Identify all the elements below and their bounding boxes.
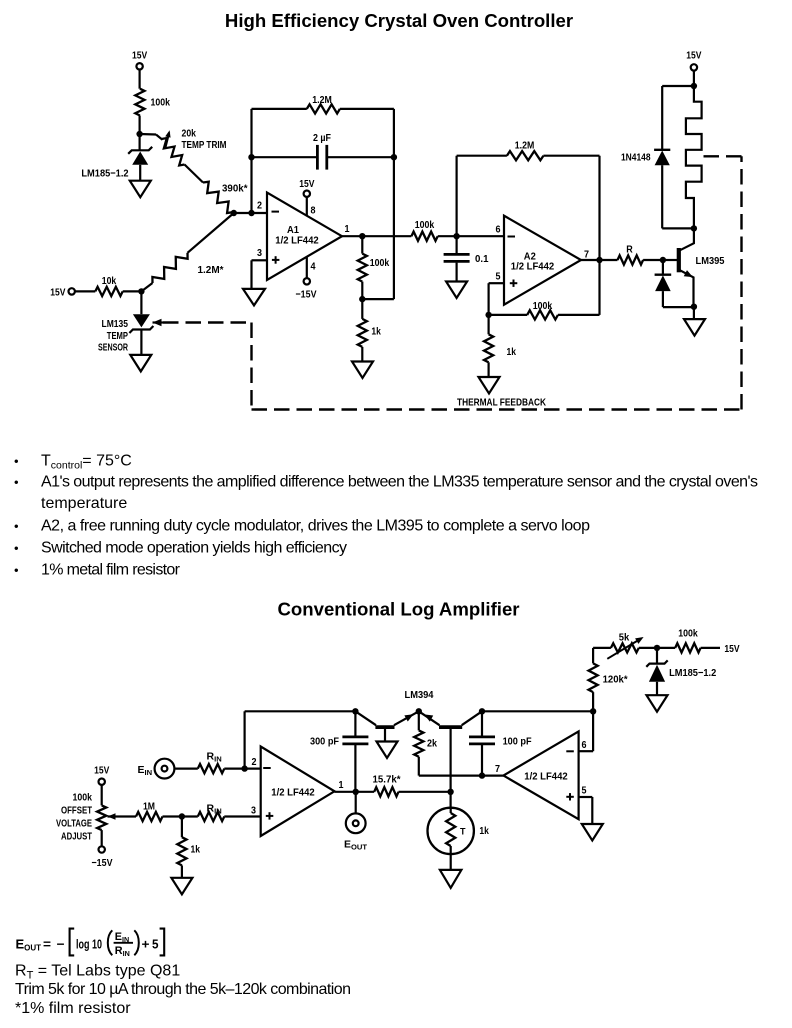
wire <box>234 212 267 214</box>
svg-text:TEMP: TEMP <box>107 330 128 342</box>
transistor LM395 <box>677 248 681 272</box>
svg-text:−15V: −15V <box>296 288 317 300</box>
svg-text:1/2 LF442: 1/2 LF442 <box>275 234 319 246</box>
resistor 15.7k* <box>374 787 398 796</box>
resistor 1M <box>136 812 163 821</box>
diode 1N4148 <box>654 149 670 151</box>
potentiometer 5k <box>593 647 611 649</box>
svg-text:1.2M: 1.2M <box>515 139 535 151</box>
ground <box>352 362 373 379</box>
resistor 390k* <box>203 182 233 213</box>
svg-text:•: • <box>14 563 19 578</box>
resistor 100k (A2 feedback bottom) <box>489 314 528 316</box>
node junction <box>179 813 185 819</box>
svg-text:15.7k*: 15.7k* <box>373 773 402 785</box>
rail to 120k node <box>482 710 593 712</box>
ground <box>171 878 192 895</box>
wire pin 6 <box>579 750 594 752</box>
op-amp A1 <box>267 193 342 281</box>
node junction <box>596 257 602 263</box>
node junction <box>138 288 144 294</box>
svg-text:10k: 10k <box>102 275 117 287</box>
resistor 1k <box>361 299 363 319</box>
pin 4 stub with -15V <box>306 257 308 279</box>
svg-text:1/2 LF442: 1/2 LF442 <box>511 261 555 273</box>
diode (base-emitter protect) <box>662 260 664 275</box>
op-amp O2 1/2 LF442 (mirrored) <box>503 731 578 819</box>
node junction <box>248 154 254 160</box>
wire <box>175 767 198 769</box>
thermistor RT 1k <box>450 792 452 808</box>
svg-text:log 10: log 10 <box>76 938 102 952</box>
svg-text:3: 3 <box>251 805 256 817</box>
heater element (crystal oven) <box>686 86 702 228</box>
svg-text:=: = <box>43 937 51 952</box>
svg-text:15V: 15V <box>686 49 701 61</box>
svg-text:1: 1 <box>345 223 350 235</box>
wire <box>139 116 141 135</box>
ground <box>647 695 668 712</box>
resistor RIN (lower) <box>198 812 225 821</box>
terminal 15V (left) <box>69 288 75 294</box>
svg-text:OFFSET: OFFSET <box>61 804 92 816</box>
svg-text:7: 7 <box>584 249 589 261</box>
feedback riser <box>244 711 246 768</box>
node junction <box>231 210 237 216</box>
capacitor 2uF <box>252 156 317 158</box>
resistor 120k* <box>592 692 594 711</box>
svg-text:1: 1 <box>339 779 344 791</box>
node junction <box>691 225 697 231</box>
node junction <box>359 233 365 239</box>
svg-text:2: 2 <box>252 756 257 768</box>
pin 8 stub with 15V <box>304 191 310 197</box>
feedback riser left <box>250 109 252 213</box>
node junction <box>241 765 247 771</box>
terminal EOUT <box>355 792 357 814</box>
svg-text:−15V: −15V <box>92 857 113 869</box>
svg-text:3: 3 <box>257 247 262 259</box>
svg-text:15V: 15V <box>50 286 65 298</box>
feedback rail top <box>245 710 356 712</box>
svg-text:1.2M*: 1.2M* <box>198 264 225 276</box>
svg-text:Conventional Log Amplifier: Conventional Log Amplifier <box>277 599 519 620</box>
svg-text:1k: 1k <box>479 825 489 837</box>
wire base <box>663 259 677 261</box>
svg-text:5: 5 <box>152 938 159 952</box>
svg-text:1M: 1M <box>143 801 155 813</box>
riser to 1.2M (A2) <box>456 156 458 237</box>
zener LM185-1.2 <box>139 134 141 150</box>
svg-text:100k: 100k <box>678 628 698 640</box>
ground <box>684 319 705 336</box>
svg-text:SENSOR: SENSOR <box>98 342 128 354</box>
ground <box>130 181 151 198</box>
svg-text:1.2M: 1.2M <box>312 94 332 106</box>
resistor 1.2M* (diagonal) <box>188 213 234 253</box>
wire <box>101 785 103 806</box>
terminal -15V (pot bottom) <box>99 846 105 852</box>
wire <box>123 290 142 292</box>
svg-text:120k*: 120k* <box>603 674 629 686</box>
svg-text:LM135: LM135 <box>102 318 129 330</box>
svg-text:100k: 100k <box>533 300 553 312</box>
svg-text:R: R <box>626 244 633 256</box>
node junction <box>352 708 358 714</box>
svg-text:15V: 15V <box>94 765 109 777</box>
potentiometer 100k OFFSET VOLTAGE ADJUST <box>97 805 106 830</box>
svg-text:1k: 1k <box>371 326 381 338</box>
svg-text:LM185−1.2: LM185−1.2 <box>81 168 128 180</box>
ground <box>479 377 500 394</box>
svg-text:VOLTAGE: VOLTAGE <box>56 817 92 829</box>
resistor 1k (to ground) <box>181 817 183 838</box>
wire pin5 <box>489 282 504 284</box>
svg-text:1k: 1k <box>191 844 201 856</box>
node junction <box>691 304 697 310</box>
resistor 100k (A1 to A2) <box>411 232 437 241</box>
svg-text:A2, a free running duty cycle: A2, a free running duty cycle modulator,… <box>41 518 590 535</box>
wire <box>140 133 156 136</box>
svg-text:2: 2 <box>257 199 262 211</box>
op-amp O1 1/2 LF442 <box>261 747 335 837</box>
svg-text:High Efficiency Crystal Oven C: High Efficiency Crystal Oven Controller <box>225 10 573 31</box>
capacitor 0.1 <box>456 236 458 253</box>
node junction <box>359 296 365 302</box>
svg-text:6: 6 <box>582 739 587 751</box>
wire pin 5 to ground <box>579 796 593 798</box>
svg-text:LM394: LM394 <box>405 689 434 701</box>
resistor 2k <box>418 711 420 730</box>
node junction <box>485 312 491 318</box>
resistor 1.2M (feedback) <box>252 108 307 110</box>
node junction <box>654 645 660 651</box>
svg-text:2 µF: 2 µF <box>313 132 331 144</box>
op-amp A2 <box>504 216 581 305</box>
capacitor 100 pF <box>481 711 483 736</box>
node junction <box>590 708 596 714</box>
svg-text:•: • <box>14 475 19 490</box>
svg-text:100k: 100k <box>370 257 390 269</box>
node junction <box>660 257 666 263</box>
LM394 right transistor <box>439 725 462 729</box>
svg-text:•: • <box>14 519 19 534</box>
ground <box>582 824 603 841</box>
wire <box>182 815 198 817</box>
wire <box>101 830 103 846</box>
resistor 1k (A2) <box>488 315 490 334</box>
resistor 100k (to ground divider) <box>358 254 367 282</box>
svg-text:Switched mode operation yields: Switched mode operation yields high effi… <box>41 540 347 557</box>
svg-text:•: • <box>14 541 19 556</box>
svg-text:5: 5 <box>496 271 501 283</box>
resistor R <box>618 255 644 264</box>
zener LM185-1.2 (log amp) <box>656 648 658 664</box>
wire <box>139 70 141 89</box>
node junction <box>248 210 254 216</box>
svg-text:TEMP TRIM: TEMP TRIM <box>182 139 227 151</box>
wire A1 output <box>342 235 411 237</box>
ground <box>243 289 265 306</box>
svg-text:1N4148: 1N4148 <box>621 152 651 164</box>
svg-text:*1% film resistor: *1% film resistor <box>15 1000 131 1017</box>
resistor 10k <box>95 287 122 296</box>
svg-text:1k: 1k <box>507 346 517 358</box>
svg-text:8: 8 <box>311 205 316 217</box>
potentiometer 20k TEMP TRIM <box>162 138 185 165</box>
terminal 15V (pot top) <box>99 779 105 785</box>
svg-text:100k: 100k <box>151 96 171 108</box>
wire <box>693 307 695 319</box>
node junction <box>391 154 397 160</box>
svg-text:5k: 5k <box>619 632 630 644</box>
svg-text:6: 6 <box>496 224 501 236</box>
wire <box>75 290 95 292</box>
svg-text:2k: 2k <box>427 738 437 750</box>
svg-text:7: 7 <box>495 763 500 775</box>
wire A2 output <box>581 259 618 261</box>
node junction <box>136 131 142 137</box>
resistor 100k (from 15V) <box>135 89 144 116</box>
LM394 left transistor <box>375 725 394 729</box>
node junction <box>479 772 485 778</box>
svg-text:15V: 15V <box>299 178 314 190</box>
svg-text:temperature: temperature <box>41 495 127 512</box>
svg-text:390k*: 390k* <box>222 183 248 195</box>
node junction <box>353 789 359 795</box>
svg-text:5: 5 <box>582 785 587 797</box>
terminal 15V (top left) <box>136 63 142 69</box>
ground <box>130 355 151 372</box>
dashed thermal feedback loop <box>153 319 162 327</box>
node junction <box>453 233 459 239</box>
svg-text:100 pF: 100 pF <box>503 736 533 748</box>
output rail (pin 7) <box>419 774 504 776</box>
svg-text:1/2 LF442: 1/2 LF442 <box>524 771 568 783</box>
svg-text:Trim 5k for 10 µA through the: Trim 5k for 10 µA through the 5k–120k co… <box>15 981 351 998</box>
wire <box>693 71 695 86</box>
terminal 15V (heater) <box>691 64 697 70</box>
node junction <box>691 83 697 89</box>
svg-text:4: 4 <box>311 260 316 272</box>
sensor diode LM135 <box>140 291 142 314</box>
wire from pin3 to ground <box>252 259 268 261</box>
svg-text:15V: 15V <box>724 643 739 655</box>
svg-text:1/2 LF442: 1/2 LF442 <box>271 787 315 799</box>
svg-text:300 pF: 300 pF <box>310 736 340 748</box>
wire O1 output <box>335 791 375 793</box>
svg-text:20k: 20k <box>182 128 197 140</box>
ground <box>446 282 467 299</box>
svg-text:0.1: 0.1 <box>475 253 489 265</box>
svg-text:15V: 15V <box>132 49 147 61</box>
svg-text:1% metal film resistor: 1% metal film resistor <box>41 562 181 579</box>
svg-text:LM185−1.2: LM185−1.2 <box>669 667 716 679</box>
svg-text:A1's output represents the amp: A1's output represents the amplified dif… <box>41 474 758 491</box>
svg-text:+: + <box>142 938 150 952</box>
svg-text:THERMAL FEEDBACK: THERMAL FEEDBACK <box>457 397 546 409</box>
svg-text:−: − <box>57 937 65 952</box>
svg-text:•: • <box>14 454 19 469</box>
node junction <box>479 708 485 714</box>
feedback riser right <box>393 109 395 299</box>
wire heater-left branch <box>662 85 694 87</box>
resistor RIN (upper) <box>198 764 225 773</box>
svg-text:ADJUST: ADJUST <box>61 830 92 842</box>
terminal EIN <box>155 759 175 779</box>
svg-text:RT = Tel Labs type Q81: RT = Tel Labs type Q81 <box>15 963 180 982</box>
resistor 1.2M (A2 feedback) <box>457 155 507 157</box>
node junction (common emitters) <box>416 708 422 714</box>
svg-text:T: T <box>460 827 466 838</box>
svg-text:100k: 100k <box>73 791 93 803</box>
node junction <box>447 789 453 795</box>
svg-text:100k: 100k <box>415 219 435 231</box>
svg-text:LM395: LM395 <box>696 255 725 267</box>
resistor 100k (to 15V) <box>657 647 675 649</box>
wire <box>185 165 204 183</box>
ground <box>440 870 462 888</box>
capacitor 300 pF <box>354 711 356 736</box>
ground <box>377 742 398 759</box>
